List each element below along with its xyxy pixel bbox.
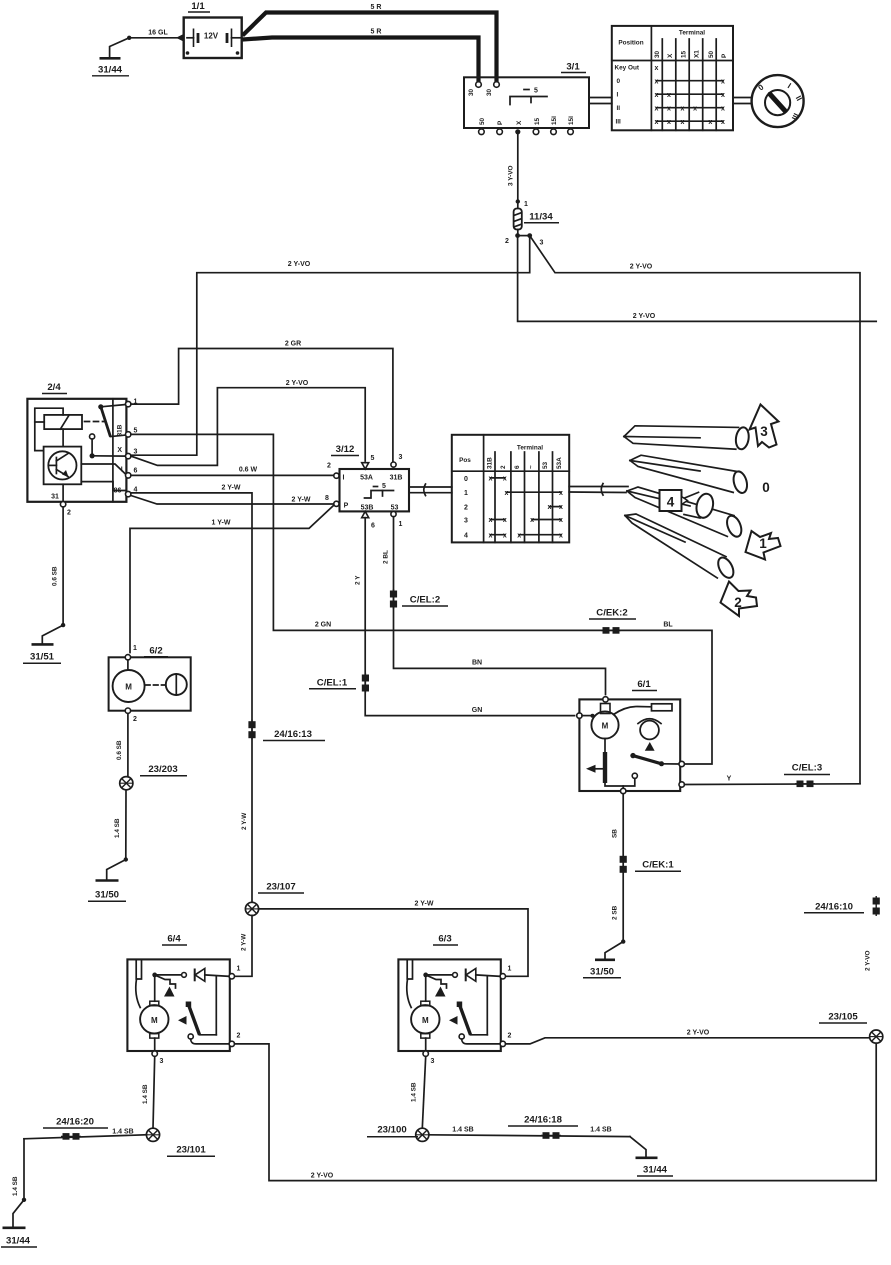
svg-text:6/4: 6/4 <box>167 934 181 945</box>
wire 2 Y-VO (node3 branch: left run to relay 2/4 pin 3) <box>130 236 530 456</box>
svg-text:x: x <box>667 92 671 99</box>
svg-text:31/44: 31/44 <box>98 65 123 76</box>
junction 23/105 <box>819 1012 883 1044</box>
wire 1.4 SB (23/203 to ground 31/50) <box>107 790 128 880</box>
pin 2 of 2/4 <box>60 502 65 507</box>
svg-text:P: P <box>497 120 504 125</box>
relay coil of 2/4 <box>44 415 82 429</box>
svg-text:31: 31 <box>51 494 59 501</box>
ground 31/51 <box>23 644 61 663</box>
pin 15 of 3/1 <box>533 129 539 135</box>
svg-text:BL: BL <box>663 622 673 629</box>
svg-text:C/EK:2: C/EK:2 <box>596 608 627 619</box>
svg-text:2: 2 <box>500 465 507 469</box>
svg-text:3: 3 <box>431 1058 435 1065</box>
switch arm of 6/3 <box>457 1002 463 1008</box>
svg-text:3: 3 <box>760 424 768 439</box>
svg-text:2 Y-VO: 2 Y-VO <box>288 261 311 268</box>
wire 2 Y-W (23/107 down to 6/4 pin1) <box>235 916 253 977</box>
svg-text:6/3: 6/3 <box>438 934 451 945</box>
wire 2 Y / GN (3/12 pin6 to C/EL:1 to 6/1 left pin) <box>355 518 575 716</box>
timer unit (transistor) of 2/4 <box>44 447 82 485</box>
svg-text:x: x <box>548 504 552 511</box>
svg-text:3: 3 <box>464 517 468 524</box>
svg-text:x: x <box>503 476 507 483</box>
svg-text:x: x <box>503 517 507 524</box>
svg-text:X: X <box>516 120 523 125</box>
svg-text:x: x <box>489 517 493 524</box>
svg-text:3: 3 <box>134 449 138 456</box>
arrow position 1 (down) <box>746 531 781 560</box>
stalk illustration: lever position 2 rod <box>625 514 737 580</box>
svg-text:1: 1 <box>524 201 528 208</box>
wire 3 Y-VO (from pin X down) <box>508 134 529 208</box>
svg-text:x: x <box>559 504 563 511</box>
svg-text:GN: GN <box>472 707 483 714</box>
battery 1/1 <box>184 1 242 58</box>
wire 2 GR (2/4 pin1 to 3/12 pin3) <box>131 341 393 463</box>
svg-text:2 Y-VO: 2 Y-VO <box>687 1030 710 1037</box>
svg-text:Position: Position <box>618 40 643 47</box>
svg-text:16 GL: 16 GL <box>148 30 168 37</box>
position table of wiper switch <box>452 435 569 543</box>
svg-text:x: x <box>721 119 725 126</box>
svg-text:Terminal: Terminal <box>517 445 543 452</box>
svg-text:0: 0 <box>617 78 621 85</box>
contact X of 2/4 <box>90 434 95 439</box>
pin 50 of 3/1 <box>479 129 485 135</box>
wire 5 R (lower thick) <box>243 29 479 83</box>
wire SB / 2 SB (6/1 bottom pin to ground 31/50) <box>605 794 625 959</box>
wire 2 BL / BN (3/12 pin1 to C/EL:2 to 6/1 top pin) <box>383 517 606 695</box>
connector C/EK:1 <box>620 854 681 874</box>
svg-text:III: III <box>616 119 622 126</box>
svg-text:15: 15 <box>681 50 688 58</box>
svg-text:6: 6 <box>514 465 521 469</box>
svg-text:2 Y: 2 Y <box>355 575 362 585</box>
svg-text:2: 2 <box>734 595 742 610</box>
junction 23/101 <box>146 1128 215 1156</box>
svg-text:M: M <box>422 1016 429 1025</box>
svg-text:5: 5 <box>371 455 375 462</box>
svg-text:31/51: 31/51 <box>30 652 55 663</box>
svg-text:31/50: 31/50 <box>95 890 119 901</box>
svg-text:31B: 31B <box>390 475 403 482</box>
svg-text:30: 30 <box>486 88 493 96</box>
svg-text:15I: 15I <box>551 116 558 125</box>
svg-text:5: 5 <box>534 88 538 95</box>
motor M of 6/3 <box>411 1005 439 1033</box>
svg-text:x: x <box>654 78 658 85</box>
svg-text:6: 6 <box>371 523 375 530</box>
svg-text:5 R: 5 R <box>371 4 382 11</box>
svg-text:1: 1 <box>759 536 767 551</box>
svg-text:23/203: 23/203 <box>148 764 177 775</box>
brush bars of 6/4 <box>136 959 141 979</box>
pin left of 6/1 <box>577 713 582 718</box>
motor lead of 6/1 <box>604 739 606 752</box>
svg-text:2: 2 <box>237 1033 241 1040</box>
pin 3 of 2/4 <box>126 453 131 458</box>
svg-text:x: x <box>681 119 685 126</box>
pin 3 of 6/3 <box>425 1038 427 1051</box>
wiper switch 3/12 <box>327 444 409 530</box>
svg-text:X: X <box>117 447 122 454</box>
svg-text:53A: 53A <box>556 457 563 469</box>
svg-text:2 GN: 2 GN <box>315 622 331 629</box>
svg-text:x: x <box>721 92 725 99</box>
park contact plate of 6/1 <box>614 707 651 715</box>
svg-text:X1: X1 <box>694 50 701 58</box>
contact symbol inside 3/1 <box>510 97 547 105</box>
svg-text:50: 50 <box>708 50 715 58</box>
svg-text:x: x <box>681 105 685 112</box>
pin 2 of 3/12 <box>334 473 339 478</box>
svg-text:Pos: Pos <box>459 457 471 464</box>
ignition switch 3/1 <box>464 62 589 135</box>
junction 23/203 <box>120 764 187 790</box>
svg-text:15: 15 <box>534 117 541 125</box>
wire 2 Y-VO (node3 diagonal branch: right run down to C/EL:3) <box>530 236 860 784</box>
svg-text:30: 30 <box>654 50 661 58</box>
svg-text:x: x <box>654 65 658 72</box>
connector 24/16:18 <box>508 1115 578 1139</box>
svg-text:86: 86 <box>114 488 122 495</box>
svg-text:x: x <box>530 517 534 524</box>
svg-text:x: x <box>654 92 658 99</box>
svg-text:2 Y-VO: 2 Y-VO <box>865 950 872 971</box>
svg-text:P: P <box>344 503 349 510</box>
svg-text:1.4 SB: 1.4 SB <box>590 1127 611 1134</box>
svg-text:P: P <box>721 53 728 58</box>
svg-text:1.4 SB: 1.4 SB <box>112 1129 133 1136</box>
svg-text:2 GR: 2 GR <box>285 341 301 348</box>
pin X of 3/1 <box>515 129 520 134</box>
stalk illustration: lever position 1 rod <box>627 487 744 539</box>
svg-text:2 Y-W: 2 Y-W <box>415 901 434 908</box>
wire 0.6 SB (6/2 pin2 down) <box>116 713 128 776</box>
wire 2 Y-VO (2/4 pin3 to 3/12 pin5) <box>131 380 365 465</box>
connector 24/16:20 <box>43 1117 108 1140</box>
svg-text:1: 1 <box>133 645 137 652</box>
svg-text:x: x <box>654 105 658 112</box>
ground 31/44 (top left) <box>92 36 131 76</box>
washer pump 6/2 <box>109 645 191 723</box>
svg-text:Terminal: Terminal <box>679 30 705 37</box>
park switch of 6/1 <box>630 753 635 758</box>
wire 2 Y-VO (6/4 pin2 bottom loop to 23/105) <box>235 1043 877 1180</box>
dashed actuator link of 2/4 <box>85 421 105 423</box>
svg-text:x: x <box>489 476 493 483</box>
crank symbol of 6/4 <box>155 975 176 988</box>
svg-text:24/16:20: 24/16:20 <box>56 1117 94 1128</box>
wire 1.4 SB (6/4 pin3 to 23/101) <box>142 1056 155 1128</box>
ground 31/50 (right) <box>583 960 621 978</box>
svg-text:II: II <box>617 105 621 112</box>
svg-text:2: 2 <box>508 1033 512 1040</box>
wire 2 Y-VO (pin2 branch: lower right run) <box>518 236 877 322</box>
pin 5 of 2/4 <box>126 432 131 437</box>
svg-text:I: I <box>121 467 123 474</box>
pin 30 (left) of 3/1 <box>476 82 482 88</box>
svg-text:2: 2 <box>67 510 71 517</box>
svg-text:1/1: 1/1 <box>191 1 205 12</box>
svg-text:SB: SB <box>612 829 619 838</box>
svg-text:C/EL:1: C/EL:1 <box>317 678 348 689</box>
stalk illustration: lever position 3 rod <box>624 426 750 450</box>
wire 2 Y-W (2/4 pin4 down to junction 23/107) <box>131 485 252 903</box>
wire Y (6/1 to C/EL:3) <box>684 776 860 785</box>
pin top of 6/1 <box>603 697 608 702</box>
pin 15I of 3/1 <box>551 129 557 135</box>
svg-text:2 SB: 2 SB <box>612 905 619 920</box>
wire 2 Y-W B (2/4 pin4 to 3/12 pin P) <box>131 495 334 504</box>
svg-text:0.6 SB: 0.6 SB <box>52 566 59 586</box>
svg-text:0: 0 <box>762 480 770 495</box>
svg-text:2: 2 <box>464 505 468 512</box>
wiper motor 6/3 <box>398 934 511 1066</box>
svg-text:x: x <box>489 532 493 539</box>
svg-text:31/44: 31/44 <box>643 1165 668 1176</box>
motor M of 6/1 <box>601 704 611 714</box>
internal leads of 2/4 <box>62 429 64 447</box>
svg-text:1 Y-W: 1 Y-W <box>212 520 231 527</box>
wire 3/12 to position table (double link) <box>409 484 452 496</box>
pin bottom of 6/1 <box>621 788 626 793</box>
svg-text:12V: 12V <box>204 32 219 41</box>
svg-text:2 Y-VO: 2 Y-VO <box>633 313 656 320</box>
svg-text:53B: 53B <box>361 505 374 512</box>
svg-text:31B: 31B <box>487 457 494 469</box>
svg-text:x: x <box>559 490 563 497</box>
svg-text:8: 8 <box>325 495 329 502</box>
svg-text:23/107: 23/107 <box>266 882 295 893</box>
terminal table of ignition switch <box>612 26 733 130</box>
pin 2 of 6/3 <box>500 1041 505 1046</box>
svg-text:x: x <box>517 532 521 539</box>
svg-text:3: 3 <box>160 1058 164 1065</box>
arrow position 3 (up) <box>750 405 779 448</box>
svg-text:3/12: 3/12 <box>336 444 355 455</box>
wire position table to stalk (double link) <box>569 484 628 496</box>
svg-text:24/16:10: 24/16:10 <box>815 902 853 913</box>
wire 1 Y-W (3/12 pin P to pump 6/2) <box>130 506 334 653</box>
svg-text:1.4 SB: 1.4 SB <box>452 1127 473 1134</box>
wire 16 GL <box>129 30 184 42</box>
svg-text:0.6 W: 0.6 W <box>239 467 258 474</box>
wire 0.6 SB (2/4 pin2 to ground) <box>42 507 65 643</box>
pin 3 of 6/4 <box>154 1038 156 1051</box>
junction 23/100 <box>367 1125 429 1142</box>
wire 2 Y-W (23/107 to 6/3 pin1) <box>259 901 528 977</box>
svg-text:x: x <box>721 78 725 85</box>
svg-text:6: 6 <box>134 468 138 475</box>
wire 1.4 SB (23/100 to 24/16:18 to ground 31/44) <box>429 1127 646 1157</box>
stalk illustration: knob 4 <box>660 490 716 520</box>
svg-text:x: x <box>693 105 697 112</box>
pin right lower of 6/1 <box>679 782 684 787</box>
svg-text:3: 3 <box>540 240 544 247</box>
pin 1 of 6/3 <box>500 974 505 979</box>
fuse 11/34 <box>505 202 559 247</box>
pin 1 of 3/12 <box>391 511 396 516</box>
svg-text:11/34: 11/34 <box>529 212 553 223</box>
pin P of 3/1 <box>497 129 503 135</box>
relay switch arm of 2/4 <box>98 404 103 409</box>
svg-text:3: 3 <box>399 454 403 461</box>
svg-text:3 Y-VO: 3 Y-VO <box>508 165 515 186</box>
diode of 6/3 <box>426 974 453 976</box>
svg-text:53: 53 <box>542 461 549 469</box>
wire 1.4 SB (6/3 pin3 to 23/100) <box>411 1056 426 1128</box>
pin 1 of 6/4 <box>229 974 234 979</box>
crank symbol of 6/3 <box>426 975 447 988</box>
svg-text:Key Out: Key Out <box>615 65 640 72</box>
svg-text:23/100: 23/100 <box>377 1125 406 1136</box>
svg-text:30: 30 <box>468 88 475 96</box>
svg-text:x: x <box>667 105 671 112</box>
svg-text:1: 1 <box>508 966 512 973</box>
svg-text:1.4 SB: 1.4 SB <box>411 1082 418 1102</box>
wiper motor 6/4 <box>127 934 240 1066</box>
wiper motor 6/1 <box>577 679 685 794</box>
junction 23/107 <box>245 882 304 916</box>
pin P of 3/12 <box>334 501 339 506</box>
svg-text:2 Y-W: 2 Y-W <box>222 485 241 492</box>
node 2 of 11/34 <box>515 233 520 238</box>
pin 1 of 2/4 <box>126 401 131 406</box>
svg-text:2 Y-VO: 2 Y-VO <box>311 1173 334 1180</box>
svg-text:24/16:18: 24/16:18 <box>524 1115 563 1126</box>
svg-text:2 Y-W: 2 Y-W <box>241 933 248 951</box>
svg-text:0: 0 <box>464 476 468 483</box>
svg-text:C/EL:3: C/EL:3 <box>792 763 822 774</box>
svg-text:2 BL: 2 BL <box>383 550 390 564</box>
connector C/EL:3 <box>784 763 830 788</box>
svg-text:x: x <box>721 105 725 112</box>
wire 2 Y-VO (6/3 pin2 to 23/105) <box>506 1030 870 1044</box>
svg-text:5: 5 <box>382 483 386 490</box>
svg-text:1.4 SB: 1.4 SB <box>114 818 121 838</box>
pin 3 of 3/12 <box>391 462 396 467</box>
svg-text:BN: BN <box>472 660 482 667</box>
svg-text:53A: 53A <box>360 475 373 482</box>
pin 6 of 3/12 <box>362 511 369 517</box>
svg-text:1: 1 <box>464 490 468 497</box>
svg-text:C/EK:1: C/EK:1 <box>642 860 674 871</box>
svg-text:C/EL:2: C/EL:2 <box>410 595 440 606</box>
ignition key symbol <box>752 75 804 127</box>
wire 5 R (upper thick) <box>243 4 497 83</box>
svg-text:x: x <box>559 532 563 539</box>
svg-text:2 Y-VO: 2 Y-VO <box>286 380 309 387</box>
ground 31/50 (left) <box>88 881 126 902</box>
pin 6 of 2/4 <box>126 473 131 478</box>
arrow position 2 (down) <box>721 582 758 617</box>
pin 2 of 6/4 <box>229 1041 234 1046</box>
svg-text:5: 5 <box>134 428 138 435</box>
svg-text:23/101: 23/101 <box>176 1145 206 1156</box>
svg-text:31/50: 31/50 <box>590 967 614 978</box>
switch arm of 6/4 <box>186 1002 192 1008</box>
svg-text:M: M <box>602 722 609 731</box>
svg-text:I: I <box>343 475 345 482</box>
svg-text:1.4 SB: 1.4 SB <box>12 1176 19 1196</box>
svg-text:X: X <box>667 53 674 58</box>
ground 31/44 (bottom middle) <box>636 1158 674 1176</box>
pin 15I(2) of 3/1 <box>568 129 574 135</box>
svg-text:x: x <box>708 119 712 126</box>
connector C/EK:2 <box>589 608 636 634</box>
diode of 6/4 <box>155 974 182 976</box>
svg-text:6/1: 6/1 <box>637 679 651 690</box>
connector 24/16:10 <box>804 896 880 971</box>
wire table to key (double link) <box>733 98 752 104</box>
svg-text:1.4 SB: 1.4 SB <box>142 1084 149 1104</box>
svg-text:31/44: 31/44 <box>6 1236 31 1247</box>
wire 3/1 to terminal table (double link) <box>589 98 612 104</box>
wire 0.6 W (2/4 pin6 to 3/12 pin2) <box>131 467 334 476</box>
svg-text:2: 2 <box>505 238 509 245</box>
svg-text:M: M <box>151 1016 158 1025</box>
svg-text:1: 1 <box>237 966 241 973</box>
svg-text:23/105: 23/105 <box>828 1012 858 1023</box>
intermittent wiper relay 2/4 <box>27 382 137 517</box>
thermal breaker of 6/1 <box>640 721 659 740</box>
svg-text:2 Y-W: 2 Y-W <box>241 812 248 830</box>
pin 4 of 2/4 <box>126 491 131 496</box>
svg-text:2: 2 <box>327 463 331 470</box>
motor M of 6/4 <box>140 1005 168 1033</box>
svg-text:4: 4 <box>667 495 675 510</box>
svg-text:x: x <box>503 532 507 539</box>
svg-text:2: 2 <box>133 716 137 723</box>
contact symbol inside 3/12 <box>365 491 394 499</box>
svg-text:4: 4 <box>464 533 468 540</box>
svg-text:3/1: 3/1 <box>566 62 580 73</box>
svg-text:x: x <box>504 490 508 497</box>
svg-text:24/16:13: 24/16:13 <box>274 729 312 740</box>
pin 5 of 3/12 <box>362 463 369 469</box>
pin 30 (right) of 3/1 <box>494 82 500 88</box>
svg-text:53: 53 <box>391 505 399 512</box>
svg-text:x: x <box>654 119 658 126</box>
stalk illustration: lever position 0 rod <box>630 455 770 495</box>
svg-text:1: 1 <box>399 521 403 528</box>
wire 2 GN / BL (2/4 pin5 to C/EK:2 to 6/1) <box>131 434 712 764</box>
connector C/EL:2 <box>390 589 448 609</box>
brush bars of 6/3 <box>407 959 412 979</box>
svg-text:50: 50 <box>479 117 486 125</box>
ground 31/44 (bottom left) <box>1 1228 37 1247</box>
svg-text:I: I <box>617 92 619 99</box>
svg-text:15I: 15I <box>568 116 575 125</box>
wire 1.4 SB (23/101 to 24/16:20 to ground 31/44) <box>12 1129 146 1227</box>
svg-text:2 Y-W: 2 Y-W <box>292 497 311 504</box>
svg-text:31B: 31B <box>117 424 124 436</box>
svg-text:2/4: 2/4 <box>47 382 61 393</box>
svg-text:0.6 SB: 0.6 SB <box>116 740 123 760</box>
svg-text:~: ~ <box>528 465 535 469</box>
connector 24/16:13 <box>248 720 325 741</box>
svg-text:5 R: 5 R <box>371 29 382 36</box>
connector C/EL:1 <box>309 673 369 693</box>
svg-text:Y: Y <box>727 776 732 783</box>
node 3 of 11/34 <box>527 233 532 238</box>
svg-text:M: M <box>125 683 132 692</box>
svg-text:x: x <box>667 119 671 126</box>
svg-text:x: x <box>559 517 563 524</box>
